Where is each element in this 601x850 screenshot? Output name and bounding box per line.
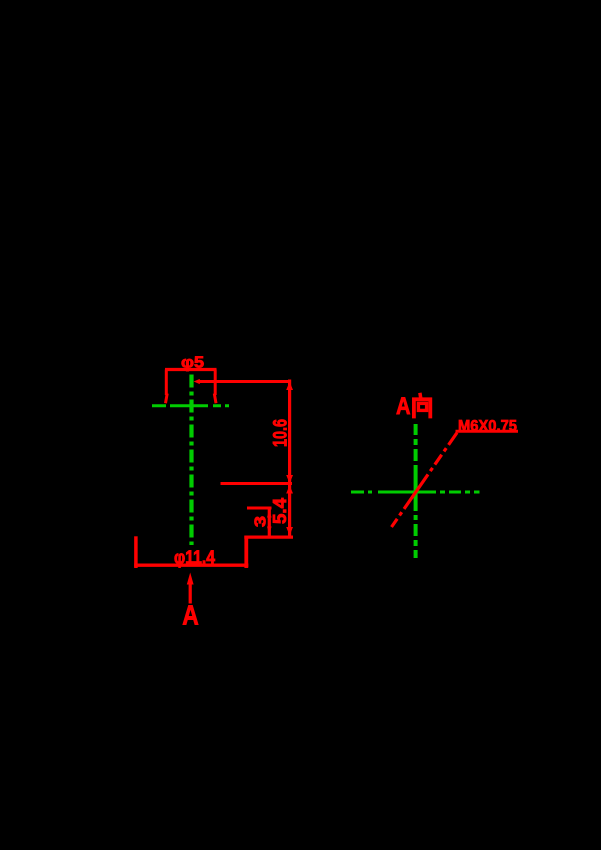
centerline vertical (front view) xyxy=(189,375,193,546)
flange bottom outline xyxy=(134,564,248,567)
flange top extension to dimension line xyxy=(244,535,293,538)
top measure line for 10.6 xyxy=(199,380,291,383)
extension line left of φ5 xyxy=(165,370,168,396)
view title glyph 向 inner box xyxy=(418,403,426,410)
view arrow A head xyxy=(187,573,194,585)
svg-text:M6X0.75: M6X0.75 xyxy=(458,418,517,435)
arrowhead down right φ5 xyxy=(214,394,216,404)
flange right step vertical xyxy=(244,536,248,568)
svg-text:A: A xyxy=(182,600,199,631)
svg-text:φ11.4: φ11.4 xyxy=(174,548,215,568)
shoulder extension line (bottom of 10.6) xyxy=(221,482,293,485)
arrowhead up at top of 10.6 xyxy=(286,382,293,391)
thread leader diagonal M6X0.75 xyxy=(392,431,459,527)
extension line (top of 3) xyxy=(247,507,272,510)
svg-text:A: A xyxy=(396,393,411,420)
centerline horizontal (view A) xyxy=(351,491,480,494)
arrowhead up for 3 xyxy=(267,510,272,518)
thread leader underline xyxy=(456,430,519,433)
arrowhead down for 3 xyxy=(267,527,272,535)
extension line right of φ5 xyxy=(214,370,217,396)
arrowhead up at top of 5.4 xyxy=(286,485,293,494)
arrowhead down left φ5 xyxy=(166,394,168,404)
flange left vertical outline xyxy=(134,536,138,568)
centerline vertical (view A) xyxy=(414,424,418,558)
view arrow A shaft xyxy=(189,584,192,604)
svg-text:3: 3 xyxy=(253,516,270,527)
view title glyph 向 outer box xyxy=(414,399,430,418)
centerline horizontal (head of front view) xyxy=(152,404,229,407)
dimension line 3 vertical xyxy=(268,508,271,537)
dimension line φ5 xyxy=(165,368,217,371)
svg-text:5.4: 5.4 xyxy=(270,498,290,524)
arrowhead left at centerline xyxy=(194,379,200,384)
view title glyph 向 top tick xyxy=(418,393,422,398)
vertical dimension line (10.6 / 5.4) xyxy=(288,380,291,538)
arrowhead down at bottom of 10.6 xyxy=(286,475,293,484)
arrowhead down at bottom of 5.4 xyxy=(286,527,293,536)
svg-text:10.6: 10.6 xyxy=(271,419,292,447)
